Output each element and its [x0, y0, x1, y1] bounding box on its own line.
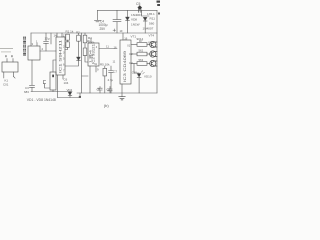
capacitor C5 series on rail: [139, 8, 141, 12]
svg-text:16: 16: [124, 36, 128, 40]
IC3 bottom pin: [121, 84, 123, 93]
wire receiver bottom: [31, 60, 33, 85]
text hongwai receiver vertical: [23, 37, 26, 56]
wire bus3: [58, 97, 81, 99]
left plug box pin labels: [5, 55, 13, 57]
svg-text:C9: C9: [107, 88, 111, 92]
capacitor C7: [110, 66, 112, 70]
transistor VT2: [150, 51, 157, 57]
svg-text:13: 13: [63, 33, 67, 37]
svg-text:1N4007: 1N4007: [131, 13, 142, 17]
resistor R1: [66, 34, 70, 40]
junction bus jog: [79, 96, 81, 98]
IR receiver box: [28, 46, 40, 60]
stage 3 wire: [131, 63, 137, 65]
svg-text:VD8: VD8: [131, 18, 137, 22]
svg-text:4.7μ: 4.7μ: [108, 78, 114, 82]
IC2 box: [88, 43, 99, 66]
resistor R4: [83, 35, 87, 43]
svg-text:C3: C3: [129, 61, 133, 65]
IC3 box: [120, 40, 131, 84]
svg-text:1N1W: 1N1W: [131, 23, 140, 27]
wire top supply rail: [98, 9, 158, 11]
IC2 bottom pins: [89, 66, 91, 93]
svg-text:IC3 CD4069: IC3 CD4069: [123, 51, 127, 82]
resistor R9: [137, 62, 147, 66]
resistor R5: [103, 68, 107, 76]
wire IC2 to IC3: [99, 48, 117, 50]
text corner fragment: [157, 1, 161, 15]
transistor VT3: [150, 60, 157, 66]
svg-text:C8: C8: [97, 88, 101, 92]
ground C6 stub: [97, 10, 99, 20]
stage 1 wire: [131, 44, 137, 46]
text C4 label: [99, 19, 108, 31]
svg-text:R7: R7: [139, 39, 143, 43]
svg-text:C5: C5: [136, 2, 140, 6]
left plug box: [2, 62, 18, 72]
wire IC3 top drop: [122, 33, 124, 40]
wire receiver out: [40, 50, 56, 52]
svg-text:1F: 1F: [120, 29, 124, 33]
wire LED branch: [134, 64, 139, 74]
resistor R8: [137, 52, 147, 56]
svg-text:1N4007: 1N4007: [143, 26, 154, 30]
node plus C4: [113, 29, 116, 32]
svg-text:10μ: 10μ: [45, 37, 50, 41]
wire long vertical mid: [82, 33, 89, 93]
svg-text:16: 16: [87, 39, 91, 43]
wire bus4: [77, 92, 157, 94]
svg-text:VD4: VD4: [67, 88, 73, 92]
diode VD8: [127, 10, 129, 17]
diode VD4: [69, 92, 71, 98]
svg-text:C10: C10: [132, 70, 137, 74]
diode VD3: [77, 57, 81, 60]
svg-text:25V: 25V: [100, 27, 107, 31]
svg-text:14: 14: [54, 33, 58, 37]
diode VD9: [142, 10, 150, 16]
pin numbers IC1 right edge: [63, 46, 65, 73]
svg-text:(b): (b): [104, 103, 110, 108]
svg-text:R5 10k: R5 10k: [100, 62, 110, 66]
transistor VT1: [150, 41, 157, 47]
svg-text:560: 560: [149, 22, 154, 26]
svg-text:683: 683: [24, 90, 29, 94]
wire receiver drop: [30, 33, 32, 46]
wire mid bus: [31, 32, 157, 34]
capacitor C8: [99, 87, 101, 89]
IC1 box: [56, 37, 65, 75]
svg-text:R11: R11: [150, 17, 156, 21]
svg-text:VT1: VT1: [131, 34, 137, 38]
resistor R3: [83, 48, 87, 56]
wire bus2: [31, 91, 72, 93]
svg-text:R2: R2: [76, 30, 80, 34]
svg-text:C7: C7: [114, 70, 118, 74]
svg-text:562: 562: [139, 48, 144, 52]
svg-text:135.1: 135.1: [147, 12, 155, 16]
wire right vertical rail: [156, 10, 158, 93]
resistor R2: [78, 33, 80, 35]
capacitor C4: [116, 10, 118, 19]
resistor R7: [137, 43, 147, 47]
svg-text:R1 1k: R1 1k: [66, 30, 74, 34]
capacitor C1: [45, 33, 47, 41]
svg-text:C2: C2: [129, 52, 133, 56]
svg-text:VT1: VT1: [148, 40, 154, 44]
resonator B box: [50, 72, 56, 90]
svg-text:104: 104: [64, 81, 69, 85]
svg-text:VT4: VT4: [149, 34, 155, 38]
svg-text:IC1 S9H211: IC1 S9H211: [59, 40, 63, 73]
svg-text:VD10: VD10: [144, 75, 152, 79]
svg-text:11: 11: [106, 45, 109, 49]
ground: [121, 93, 123, 97]
IC1 bottom pin wire: [57, 75, 59, 98]
text faint above plug: [0, 48, 13, 52]
svg-text:1204: 1204: [88, 49, 92, 63]
svg-text:16: 16: [114, 45, 118, 49]
stage 2 wire: [131, 53, 137, 55]
LED VD10: [137, 74, 141, 78]
svg-text:C01: C01: [3, 83, 9, 87]
capacitor C3: [30, 85, 35, 87]
svg-text:VD1 - VD8 1N4148: VD1 - VD8 1N4148: [27, 98, 56, 102]
capacitor C9: [109, 87, 111, 89]
IC1 top pins: [57, 33, 62, 37]
svg-text:563: 563: [139, 58, 144, 62]
